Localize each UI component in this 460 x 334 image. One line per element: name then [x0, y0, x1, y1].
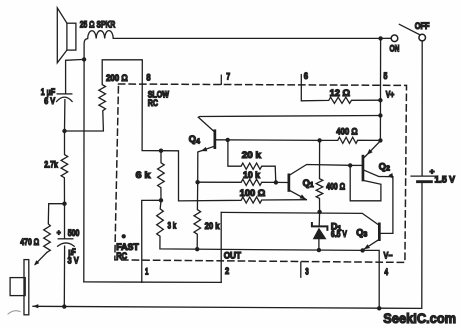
svg-text:RC: RC [148, 98, 159, 108]
svg-text:12 Ω: 12 Ω [330, 88, 350, 98]
svg-text:2.7k: 2.7k [44, 160, 58, 170]
svg-text:1: 1 [145, 267, 149, 277]
svg-text:400 Ω: 400 Ω [326, 182, 345, 192]
svg-text:4: 4 [384, 267, 388, 277]
svg-text:6: 6 [304, 71, 308, 81]
svg-text:V+: V+ [386, 90, 395, 100]
svg-text:200 Ω: 200 Ω [106, 73, 128, 83]
svg-text:100 Ω: 100 Ω [240, 188, 266, 198]
svg-text:2: 2 [225, 266, 229, 276]
svg-text:470 Ω: 470 Ω [20, 237, 39, 247]
svg-text:3 V: 3 V [68, 256, 80, 266]
svg-text:8: 8 [146, 72, 150, 82]
svg-text:ON: ON [390, 44, 400, 54]
svg-text:10 k: 10 k [243, 170, 261, 180]
svg-text:SeekIC.com: SeekIC.com [383, 310, 456, 326]
svg-text:400 Ω: 400 Ω [336, 126, 357, 136]
svg-text:1.5 V: 1.5 V [435, 174, 456, 184]
svg-text:7: 7 [226, 72, 230, 82]
svg-text:20 k: 20 k [242, 150, 262, 160]
svg-text:5: 5 [384, 71, 388, 81]
svg-text:500: 500 [68, 228, 80, 238]
svg-text:3 k: 3 k [168, 221, 177, 231]
svg-text:RC: RC [116, 251, 127, 261]
svg-text:V−: V− [384, 251, 393, 261]
svg-text:20 k: 20 k [205, 221, 221, 231]
svg-text:3: 3 [305, 267, 309, 277]
svg-text:+: + [57, 230, 61, 237]
svg-text:6 V: 6 V [44, 96, 56, 106]
svg-text:OUT: OUT [224, 250, 242, 260]
svg-text:25 Ω SPKR: 25 Ω SPKR [80, 20, 116, 31]
svg-text:OFF: OFF [415, 21, 430, 31]
svg-text:6 k: 6 k [136, 170, 152, 180]
